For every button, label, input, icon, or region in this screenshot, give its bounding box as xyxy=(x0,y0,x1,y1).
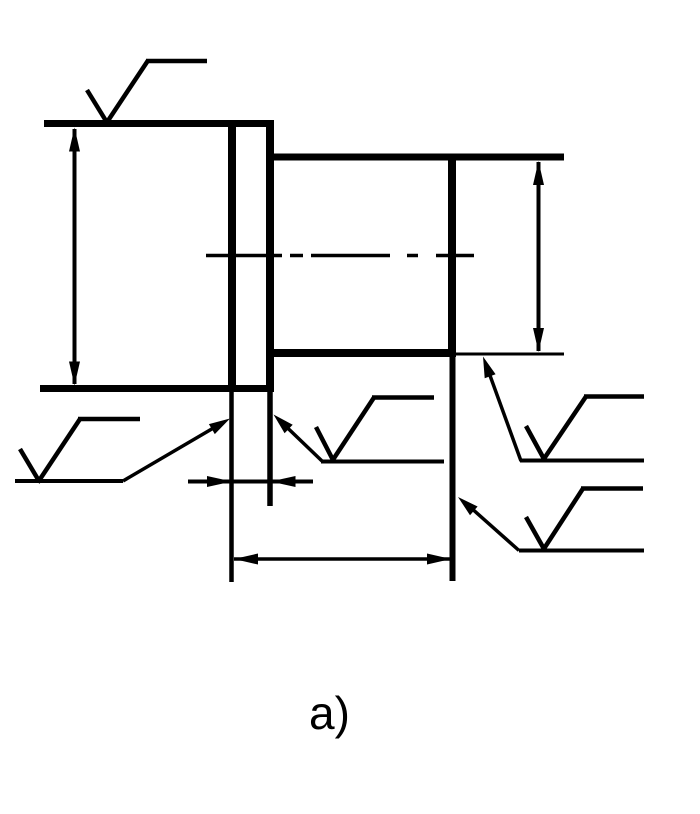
outline: collar left edge xyxy=(228,120,236,392)
outline: large cylinder bottom edge xyxy=(40,385,274,392)
surface finish symbol: on large cylinder top edge xyxy=(87,61,207,125)
outline: small cylinder bottom edge xyxy=(266,349,456,357)
surface finish symbol: bottom left, with leader xyxy=(15,419,140,483)
leader arrow: upper-right symbol to bottom extension line xyxy=(483,357,521,462)
dimension line: small diameter (right vertical) xyxy=(533,161,544,352)
centerline (dash-dot axis) xyxy=(206,254,474,258)
extension line: small cylinder bottom right xyxy=(456,353,564,356)
extension line: below collar left xyxy=(229,392,234,582)
dimension line: large diameter (left vertical) xyxy=(69,128,80,386)
surface finish symbol: lower right, with leader xyxy=(519,489,644,551)
outline: large cylinder top edge xyxy=(44,120,274,127)
svg-text:a): a) xyxy=(309,687,350,739)
dimension line: collar width (small horizontal, arrows outside) xyxy=(188,476,313,487)
outline: small cylinder right end face xyxy=(448,154,456,358)
leader arrow: bottom-left symbol to collar left extension xyxy=(123,419,230,482)
leader arrow: lower-right symbol to right end extension xyxy=(458,497,519,551)
surface finish symbol: upper right, with leader xyxy=(520,397,644,461)
extension line: below small cylinder right end xyxy=(450,357,456,581)
leader arrow: middle symbol to collar right extension xyxy=(274,415,323,462)
dimension line: shaft length (long horizontal) xyxy=(234,554,451,565)
surface finish symbol: middle, with leader xyxy=(316,398,444,462)
outline: small cylinder top edge xyxy=(266,154,564,161)
extension line: below collar right xyxy=(267,392,273,506)
outline: collar right edge xyxy=(266,120,274,392)
